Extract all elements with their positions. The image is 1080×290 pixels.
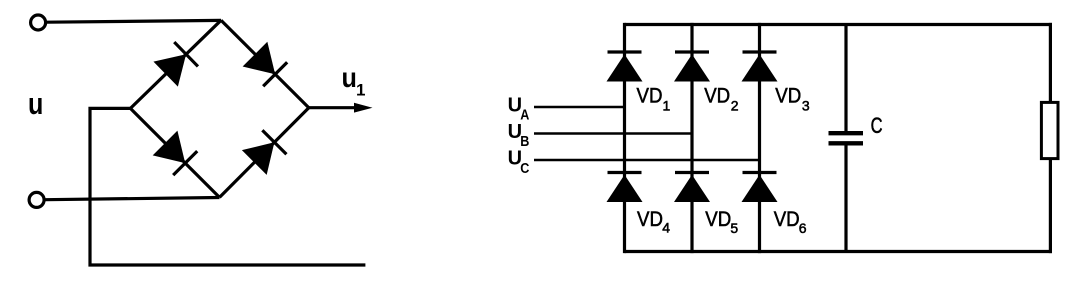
leg 1 [623,23,626,253]
svg-text:u: u [342,62,357,94]
wire bridge edge top-right [221,20,309,107]
terminal circle bottom-left [29,192,44,207]
svg-text:1: 1 [663,98,671,114]
diode bridge bottom-right [242,130,287,175]
svg-text:VD: VD [637,85,663,108]
diode bridge top-left [153,42,198,87]
terminal circle top-left [31,15,46,30]
svg-text:5: 5 [730,220,738,236]
svg-text:1: 1 [356,80,365,99]
svg-text:VD: VD [637,208,663,231]
top rail right circuit [625,23,1053,26]
svg-text:VD: VD [774,208,800,231]
leg 3 [758,23,761,253]
diode bridge top-right [243,42,288,87]
svg-text:C: C [520,159,529,176]
wire phase B [534,132,692,135]
svg-text:4: 4 [662,220,670,236]
diode VD4 [607,173,643,203]
diode VD2 [674,52,710,82]
wire top input [47,20,221,22]
output arrow u1 [309,106,356,109]
svg-text:u: u [28,85,43,120]
svg-text:VD: VD [704,85,730,108]
resistor load [1041,102,1058,158]
wire left node to bottom rail [90,108,365,265]
wire bridge edge bottom-right [220,108,309,198]
wire bridge edge bottom-left [130,108,219,197]
capacitor C wires [844,25,847,132]
bottom rail right circuit [625,250,1053,253]
svg-text:3: 3 [802,98,810,114]
leg 2 [690,23,693,253]
diode VD5 [674,173,710,203]
svg-text:C: C [871,114,883,139]
svg-text:6: 6 [799,220,807,236]
svg-text:A: A [520,105,529,122]
diode VD3 [742,52,778,82]
diode VD6 [742,173,778,203]
wire phase A [534,106,625,109]
wire bottom input [46,198,220,200]
capacitor C plates [829,131,864,135]
svg-text:VD: VD [705,208,731,231]
diode VD1 [607,52,643,82]
wire phase C [534,159,760,162]
diode bridge bottom-left [153,131,198,176]
svg-text:2: 2 [731,97,739,113]
right branch wires [1049,23,1052,103]
svg-text:VD: VD [775,85,801,108]
wire bridge edge top-left [130,20,221,108]
